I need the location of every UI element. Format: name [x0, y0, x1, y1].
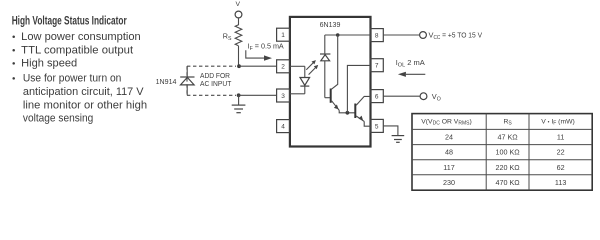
node D: junction dot Q1 emitter / pin7 — [346, 111, 350, 115]
dashed box: optional AC input diode — [187, 66, 236, 95]
node B: junction dot ground/diode/pin3 wire — [237, 93, 241, 97]
pin 3 — [277, 89, 290, 102]
svg-text:47 KΩ: 47 KΩ — [498, 133, 519, 142]
svg-text:IF = 0.5 mA: IF = 0.5 mA — [248, 41, 284, 52]
ground: input side — [232, 95, 246, 112]
svg-text:High speed: High speed — [21, 58, 77, 70]
pin 2 — [277, 60, 290, 73]
table row 3: 117 / 220 KΩ / 62 — [443, 163, 564, 172]
wire: node B to pin 3 — [239, 94, 277, 96]
svg-text:220 KΩ: 220 KΩ — [496, 163, 521, 172]
wire: node A to pin 2 — [239, 65, 277, 67]
label 1N914 — [156, 77, 177, 86]
op-amp U1: optocoupler 6N139 package outline — [290, 17, 371, 147]
wire: Q1 emitter to Q2 base — [339, 110, 355, 113]
svg-text:48: 48 — [445, 148, 453, 157]
pin 8 — [370, 29, 383, 42]
svg-text:Use for power turn on: Use for power turn on — [23, 73, 122, 85]
svg-text:22: 22 — [557, 148, 565, 157]
svg-text:8: 8 — [375, 33, 379, 40]
svg-text:24: 24 — [445, 133, 453, 142]
svg-text:6: 6 — [375, 94, 379, 101]
svg-text:5: 5 — [375, 123, 379, 130]
svg-text:2: 2 — [281, 64, 285, 71]
pin 4 — [277, 120, 290, 133]
label ADD FOR AC INPUT — [200, 71, 232, 88]
wire: resistor RS to node A — [238, 46, 240, 66]
node VO terminal — [420, 93, 427, 100]
svg-text:High Voltage Status Indicator: High Voltage Status Indicator — [12, 16, 127, 28]
title: High Voltage Status Indicator — [12, 16, 127, 28]
wire: photodiode to Q1 base — [325, 97, 330, 99]
node C: junction dot top rail / Q1 collector — [336, 33, 340, 37]
wire: top rail photodiode to pin 8 — [325, 34, 371, 36]
svg-text:230: 230 — [443, 178, 455, 187]
transistor Q1 — [331, 89, 340, 111]
label IF = 0.5 mA with arrow — [246, 41, 284, 60]
svg-text:Low power consumption: Low power consumption — [21, 31, 141, 43]
svg-text:100 KΩ: 100 KΩ — [496, 148, 521, 157]
resistor RS — [223, 25, 242, 46]
table row 1: 24 / 47 KΩ / 11 — [445, 133, 564, 142]
svg-text:113: 113 — [555, 178, 566, 187]
svg-text:6N139: 6N139 — [320, 20, 341, 29]
label VCC = +5 TO 15 V — [429, 30, 483, 41]
label IOL 2 mA with arrow — [396, 58, 426, 77]
wire: pin 8 to VCC terminal — [383, 34, 419, 36]
LED: input emitter diode — [300, 66, 310, 94]
wire: pin 5 to output ground — [383, 126, 398, 135]
svg-text:470 KΩ: 470 KΩ — [496, 178, 521, 187]
pin 5 — [370, 119, 383, 132]
svg-text:line monitor or other high: line monitor or other high — [23, 100, 147, 112]
svg-text:AC INPUT: AC INPUT — [200, 79, 232, 88]
node A: junction dot RS/diode/pin2 wire — [237, 64, 241, 68]
light arrows: LED to photodiode — [306, 60, 318, 75]
table: RS selection values — [412, 114, 592, 191]
ground: output side — [392, 136, 405, 143]
svg-text:voltage sensing: voltage sensing — [23, 113, 93, 125]
transistor Q2 — [355, 96, 370, 121]
wire: pin2 into LED branch — [290, 65, 305, 67]
node VCC terminal — [420, 32, 427, 39]
bullet list: features — [12, 31, 147, 125]
table row 4: 230 / 470 KΩ / 113 — [443, 178, 566, 187]
wire: V terminal to resistor RS — [238, 18, 240, 25]
svg-text:3: 3 — [281, 93, 285, 100]
diode D1 1N914 — [180, 66, 194, 95]
wire: Q2 emitter to pin 5 — [364, 121, 371, 126]
svg-text:anticipation circuit, 117 V: anticipation circuit, 117 V — [23, 86, 145, 98]
pin 6 — [370, 90, 383, 103]
pin 1 — [277, 28, 290, 41]
wire: pin3 into LED branch — [290, 93, 305, 95]
wire: pin 6 to VO terminal — [383, 95, 420, 97]
wire: pin 7 branch — [347, 65, 370, 112]
photodiode — [320, 35, 330, 98]
node V: input supply terminal — [235, 1, 242, 18]
svg-text:11: 11 — [557, 133, 564, 142]
svg-text:V: V — [236, 1, 241, 8]
svg-text:4: 4 — [281, 124, 285, 131]
svg-text:117: 117 — [443, 163, 454, 172]
svg-text:TTL compatible output: TTL compatible output — [21, 44, 133, 56]
table header labels — [421, 118, 575, 126]
label VO — [432, 92, 441, 103]
pin 7 — [370, 59, 383, 72]
svg-text:1: 1 — [281, 32, 285, 39]
svg-text:1N914: 1N914 — [156, 77, 177, 86]
svg-text:7: 7 — [375, 63, 379, 70]
wire: Q1 collector — [332, 35, 338, 89]
table row 2: 48 / 100 KΩ / 22 — [445, 148, 565, 157]
svg-text:62: 62 — [557, 163, 565, 172]
